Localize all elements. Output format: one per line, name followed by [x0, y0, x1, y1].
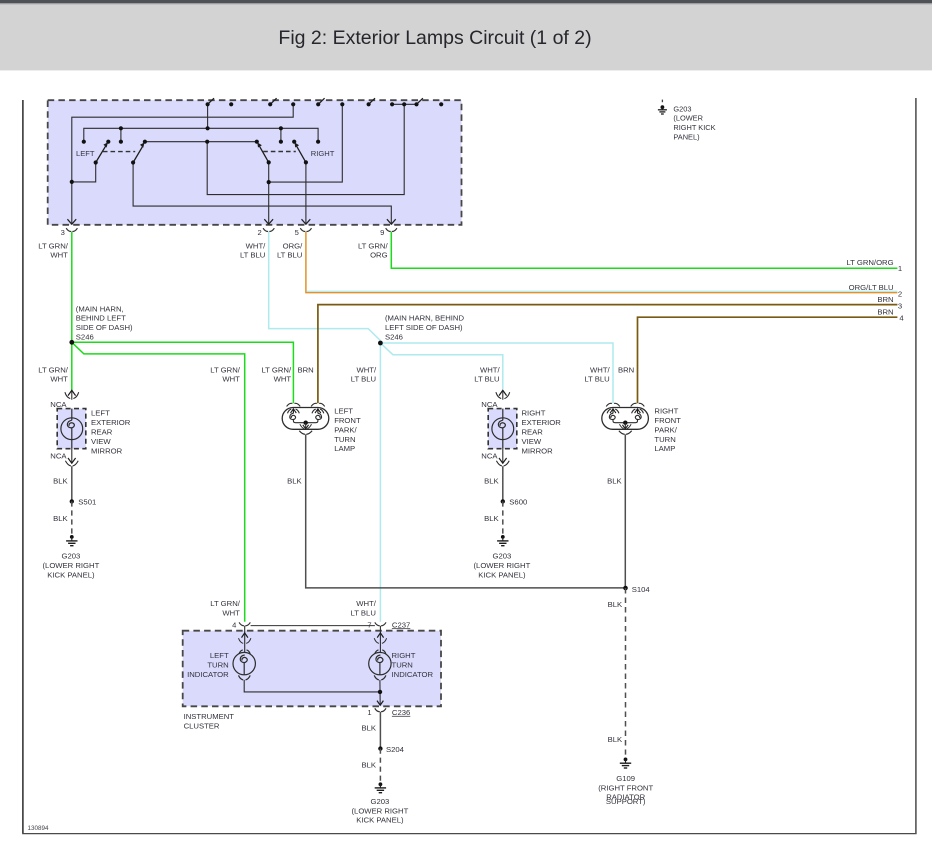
- svg-text:WHT/: WHT/: [356, 365, 377, 374]
- svg-text:WHT/: WHT/: [246, 241, 267, 250]
- svg-text:WHT: WHT: [222, 375, 240, 384]
- svg-text:S246: S246: [385, 333, 403, 342]
- label G203 (LOWER RIGHT KICK PANEL): [351, 797, 408, 825]
- wire BLK right mirror to S600: [502, 466, 504, 501]
- svg-text:BLK: BLK: [361, 760, 376, 769]
- svg-text:BLK: BLK: [287, 477, 302, 486]
- svg-text:FRONT: FRONT: [334, 416, 361, 425]
- wire BLK dashed S104 to G109: [625, 588, 627, 755]
- svg-text:LT GRN/: LT GRN/: [210, 365, 240, 374]
- label G203 (LOWER RIGHT KICK PANEL): [42, 552, 99, 580]
- svg-text:KICK PANEL): KICK PANEL): [47, 570, 95, 579]
- wire BLK left lamp to S104: [306, 434, 626, 588]
- svg-text:SUPPORT): SUPPORT): [606, 797, 646, 806]
- svg-text:WHT/: WHT/: [590, 365, 611, 374]
- wire WHT/LT BLU S246 branch to right mirror: [380, 343, 502, 389]
- svg-text:BLK: BLK: [53, 477, 68, 486]
- label RIGHT FRONT PARK/ TURN LAMP: [654, 407, 681, 454]
- svg-text:C236: C236: [392, 708, 410, 717]
- svg-text:KICK PANEL): KICK PANEL): [478, 570, 526, 579]
- svg-text:S104: S104: [632, 585, 651, 594]
- wire LT GRN/WHT S246 branch to left lamp: [72, 342, 294, 403]
- node: pin3 feed junction: [70, 180, 74, 184]
- switch blade top row 1: [208, 98, 214, 104]
- right mirror bottom connector arrow: [496, 449, 509, 466]
- wire right indicator to pin 1: [379, 680, 381, 705]
- header grey band: [0, 4, 932, 70]
- svg-text:WHT: WHT: [50, 251, 68, 260]
- switch blade top row 3: [318, 98, 324, 104]
- svg-text:PARK/: PARK/: [654, 425, 677, 434]
- blade arrowhead sw2: [140, 142, 145, 147]
- ground G203 (cluster): [375, 782, 386, 792]
- svg-text:9: 9: [380, 228, 384, 237]
- svg-text:(LOWER RIGHT: (LOWER RIGHT: [42, 561, 99, 570]
- left lamp turn bulb (BRN input): [312, 409, 324, 419]
- node: contact row dots y141.7: [82, 140, 86, 144]
- svg-text:NCA: NCA: [481, 400, 498, 409]
- right turn indicator bulb: [369, 650, 391, 680]
- svg-text:KICK PANEL): KICK PANEL): [356, 816, 404, 825]
- switch linkage dashes LEFT: [103, 151, 135, 153]
- svg-text:FRONT: FRONT: [654, 416, 681, 425]
- left mirror bottom connector arrow: [65, 449, 78, 466]
- right lamp output junction: [623, 421, 627, 425]
- node: top row contact dots: [229, 102, 233, 106]
- svg-text:LT GRN/: LT GRN/: [358, 241, 388, 250]
- instrument cluster box: [183, 631, 441, 707]
- left mirror bulb: [61, 409, 83, 449]
- wire LT GRN/WHT pin3 to S246: [71, 232, 73, 343]
- right lamp bottom connector arc: [619, 431, 632, 435]
- svg-text:INSTRUMENT: INSTRUMENT: [184, 712, 235, 721]
- svg-text:EXTERIOR: EXTERIOR: [91, 418, 131, 427]
- svg-text:BLK: BLK: [607, 477, 622, 486]
- svg-text:5: 5: [295, 228, 299, 237]
- label RIGHT EXTERIOR REAR VIEW MIRROR: [522, 409, 562, 456]
- splice S600: [501, 499, 505, 503]
- svg-text:4: 4: [899, 314, 904, 323]
- left lamp housing: [282, 408, 329, 430]
- wire: switch2 pivot leg to pin 9: [133, 163, 391, 224]
- svg-text:S600: S600: [509, 497, 527, 506]
- label LEFT FRONT PARK/ TURN LAMP: [334, 407, 361, 454]
- switch blade LEFT sw1: [96, 145, 107, 162]
- svg-text:EXTERIOR: EXTERIOR: [522, 418, 562, 427]
- wire: switch3 pivot leg to pin 2: [268, 162, 270, 223]
- wire BRN to right lamp from right edge: [638, 317, 898, 403]
- wire: contact2 drop and run to pin 3: [72, 104, 293, 223]
- pin 3 exit arrowhead: [67, 219, 76, 224]
- right lamp housing: [602, 408, 649, 430]
- right mirror component box: [488, 409, 517, 449]
- svg-text:WHT/: WHT/: [480, 365, 501, 374]
- ground G203 (left mirror): [66, 535, 77, 546]
- svg-text:LAMP: LAMP: [334, 444, 355, 453]
- svg-text:BEHIND LEFT: BEHIND LEFT: [76, 314, 126, 323]
- wire WHT/LT BLU pin2 to S246 second splice: [269, 232, 381, 343]
- svg-text:INDICATOR: INDICATOR: [392, 670, 434, 679]
- svg-text:BLK: BLK: [484, 477, 499, 486]
- svg-text:BLK: BLK: [608, 600, 623, 609]
- svg-text:ORG: ORG: [370, 251, 388, 260]
- svg-text:LT BLU: LT BLU: [351, 608, 376, 617]
- svg-text:MIRROR: MIRROR: [522, 446, 554, 455]
- pin 2 connector arc: [263, 228, 274, 231]
- switch blade RIGHT sw4: [296, 146, 306, 163]
- svg-text:TURN: TURN: [207, 661, 228, 670]
- splice S104: [623, 586, 628, 591]
- svg-text:BLK: BLK: [361, 723, 376, 732]
- ground G203 (right mirror): [497, 535, 508, 546]
- svg-text:2: 2: [898, 289, 902, 298]
- pin 5 connector arc: [300, 228, 311, 231]
- svg-text:BRN: BRN: [877, 295, 893, 304]
- svg-text:G109: G109: [616, 774, 635, 783]
- wire left indicator to common junction: [244, 680, 380, 692]
- svg-text:WHT/: WHT/: [356, 599, 377, 608]
- svg-text:VIEW: VIEW: [522, 437, 542, 446]
- node: switch pivots: [94, 160, 98, 164]
- switch blade top row 5: [417, 98, 423, 104]
- wire: switch4 pivot leg to pin 5: [305, 162, 307, 223]
- pin 3 connector arc: [66, 228, 77, 231]
- wire LT GRN/WHT S246 branch to instrument cluster pin4: [72, 342, 245, 622]
- wire: strap T drop to y194 run: [207, 104, 404, 194]
- right lamp turn bulb (BRN input): [632, 409, 644, 419]
- svg-text:WHT: WHT: [222, 608, 240, 617]
- svg-text:LEFT: LEFT: [210, 651, 229, 660]
- left turn indicator feed: [244, 626, 246, 653]
- svg-text:WHT: WHT: [50, 375, 68, 384]
- svg-text:LT BLU: LT BLU: [474, 375, 499, 384]
- wire: contact row y=141.7: [145, 141, 257, 143]
- node: pin2 feed junction: [267, 180, 271, 184]
- svg-text:3: 3: [898, 301, 902, 310]
- svg-text:LEFT: LEFT: [76, 149, 95, 158]
- blade arrowhead sw3: [257, 142, 262, 147]
- svg-text:Fig 2: Exterior Lamps Circuit: Fig 2: Exterior Lamps Circuit (1 of 2): [278, 27, 591, 49]
- svg-text:TURN: TURN: [334, 435, 355, 444]
- common junction dot: [378, 690, 382, 694]
- svg-text:G203: G203: [61, 552, 80, 561]
- svg-text:MIRROR: MIRROR: [91, 446, 123, 455]
- svg-text:LT GRN/: LT GRN/: [261, 365, 291, 374]
- svg-text:RIGHT KICK: RIGHT KICK: [673, 123, 715, 132]
- svg-text:G203: G203: [370, 797, 389, 806]
- switch blade sw2: [133, 145, 143, 162]
- pin 1 connector arc: [375, 708, 386, 711]
- left lamp output junction: [304, 421, 308, 425]
- svg-text:LT BLU: LT BLU: [277, 251, 302, 260]
- svg-text:PANEL): PANEL): [673, 133, 699, 142]
- svg-text:(MAIN HARN, BEHIND: (MAIN HARN, BEHIND: [385, 314, 464, 323]
- svg-text:NCA: NCA: [50, 451, 67, 460]
- wire LT GRN/ORG pin9 to right edge: [391, 232, 897, 269]
- wire BLK cluster pin1 to S204: [379, 712, 381, 749]
- blade arrowhead sw4: [295, 142, 300, 147]
- pin 4 connector arc: [239, 622, 250, 625]
- splice S204: [378, 746, 382, 750]
- wire BLK dashed S600 to ground: [502, 501, 504, 534]
- svg-text:BRN: BRN: [618, 365, 634, 374]
- svg-text:BRN: BRN: [297, 365, 313, 374]
- svg-text:BLK: BLK: [484, 514, 499, 523]
- svg-text:(LOWER RIGHT: (LOWER RIGHT: [473, 561, 530, 570]
- wire: stub 280.9: [280, 128, 282, 141]
- headlamp switch box: [48, 100, 462, 225]
- svg-text:REAR: REAR: [522, 428, 544, 437]
- ground G109: [620, 758, 631, 769]
- svg-text:RIGHT: RIGHT: [654, 407, 678, 416]
- label G109 (RIGHT FRONT RADIATOR SUPPORT): [598, 774, 653, 806]
- svg-text:S501: S501: [78, 497, 96, 506]
- wire BRN to left lamp from right edge: [318, 305, 898, 404]
- node: top row blade dots: [206, 102, 210, 106]
- label LEFT EXTERIOR REAR VIEW MIRROR: [91, 409, 131, 456]
- left lamp bottom connector arc: [299, 431, 312, 435]
- svg-text:LT BLU: LT BLU: [584, 375, 609, 384]
- wire: stub 120.9: [120, 128, 122, 141]
- svg-text:LEFT SIDE OF DASH): LEFT SIDE OF DASH): [385, 323, 463, 332]
- connector C237 line: [251, 625, 375, 627]
- svg-text:TURN: TURN: [392, 661, 413, 670]
- svg-text:LT BLU: LT BLU: [240, 251, 265, 260]
- svg-text:WHT: WHT: [274, 375, 292, 384]
- svg-text:1: 1: [898, 264, 902, 273]
- svg-text:(RIGHT FRONT: (RIGHT FRONT: [598, 783, 653, 792]
- svg-text:BRN: BRN: [877, 307, 893, 316]
- splice S246 (right): [378, 341, 383, 346]
- svg-text:RIGHT: RIGHT: [311, 149, 335, 158]
- svg-text:G203: G203: [673, 104, 691, 113]
- svg-text:RIGHT: RIGHT: [522, 409, 546, 418]
- svg-text:7: 7: [367, 620, 371, 629]
- svg-text:LT GRN/: LT GRN/: [38, 241, 68, 250]
- svg-text:LT GRN/: LT GRN/: [210, 599, 240, 608]
- wire: blade1 drop to bus y128: [207, 104, 209, 128]
- svg-text:2: 2: [257, 228, 261, 237]
- pin 2 exit arrowhead: [264, 219, 273, 224]
- splice S501: [70, 499, 74, 503]
- wire: contact3 drop to y182 run: [269, 104, 343, 182]
- svg-text:(LOWER: (LOWER: [673, 114, 703, 123]
- wire BLK dashed S204 to ground: [379, 749, 381, 782]
- wire stub dashed above G203: [661, 100, 663, 104]
- blade arrowhead sw1: [103, 142, 108, 147]
- svg-text:3: 3: [61, 228, 65, 237]
- frame left border: [22, 100, 24, 834]
- label LEFT TURN INDICATOR: [187, 651, 229, 679]
- splice S246 (left): [69, 340, 74, 345]
- svg-text:LEFT: LEFT: [91, 409, 110, 418]
- pin 7 connector arc: [375, 622, 386, 625]
- header top dark bar: [0, 0, 932, 3]
- ground G203 (top right): [658, 105, 667, 114]
- svg-text:LEFT: LEFT: [334, 407, 353, 416]
- label RIGHT TURN INDICATOR: [392, 651, 434, 679]
- wire: top strap contact4-blade5: [392, 103, 416, 105]
- left mirror top connector arrow (NCA): [65, 391, 79, 400]
- wire: bus y=128: [84, 128, 318, 141]
- svg-text:S246: S246: [76, 333, 94, 342]
- node: strap T junction: [402, 102, 406, 106]
- svg-text:S204: S204: [386, 745, 405, 754]
- svg-text:TURN: TURN: [654, 435, 675, 444]
- wire ORG/LT BLU light blue tracer: [307, 290, 898, 292]
- label G203 (LOWER RIGHT KICK PANEL) top right: [673, 104, 715, 141]
- label G203 (LOWER RIGHT KICK PANEL): [473, 552, 530, 580]
- wire ORG/LT BLU pin5 to right edge: [306, 232, 898, 293]
- svg-text:C237: C237: [392, 620, 410, 629]
- svg-text:LT GRN/: LT GRN/: [38, 365, 68, 374]
- svg-text:BLK: BLK: [53, 514, 68, 523]
- left mirror component box: [57, 409, 86, 449]
- switch blade top row 4: [369, 98, 375, 104]
- svg-text:SIDE OF DASH): SIDE OF DASH): [76, 323, 133, 332]
- pin 9 connector arc: [386, 228, 397, 231]
- wire WHT/LT BLU S246 down to cluster pin7: [379, 343, 381, 622]
- switch blade sw3: [259, 146, 269, 163]
- pin 9 exit arrowhead: [387, 219, 396, 224]
- svg-text:ORG/: ORG/: [283, 241, 304, 250]
- svg-text:BLK: BLK: [608, 735, 623, 744]
- svg-text:RIGHT: RIGHT: [392, 651, 416, 660]
- svg-text:LAMP: LAMP: [654, 444, 675, 453]
- wire BLK left mirror to S501: [71, 466, 73, 501]
- svg-text:NCA: NCA: [50, 400, 67, 409]
- wire LT GRN/WHT S246 down to left mirror: [71, 342, 73, 391]
- svg-text:NCA: NCA: [481, 451, 498, 460]
- svg-text:1: 1: [367, 708, 371, 717]
- svg-text:PARK/: PARK/: [334, 425, 357, 434]
- pin 5 exit arrowhead: [302, 219, 311, 224]
- svg-text:(MAIN HARN,: (MAIN HARN,: [76, 304, 124, 313]
- switch blade top row 2: [270, 98, 276, 104]
- left lamp park bulb (LT GRN/WHT input): [288, 409, 318, 423]
- right mirror top connector arrow (NCA): [496, 391, 510, 400]
- svg-text:LT BLU: LT BLU: [351, 375, 376, 384]
- svg-text:CLUSTER: CLUSTER: [184, 722, 220, 731]
- pin1 exit arrowhead: [377, 701, 383, 706]
- wire WHT/LT BLU S246 branch to right lamp: [380, 343, 613, 403]
- svg-text:4: 4: [232, 620, 236, 629]
- svg-text:130894: 130894: [28, 825, 50, 832]
- wire BLK right lamp to S104: [624, 434, 626, 588]
- svg-text:(LOWER RIGHT: (LOWER RIGHT: [351, 806, 408, 815]
- node: bus junctions y128: [119, 126, 123, 130]
- switch linkage dashes RIGHT: [263, 151, 296, 153]
- svg-text:REAR: REAR: [91, 428, 113, 437]
- left lamp input connector arcs: [287, 403, 325, 406]
- right lamp input connector arcs: [606, 403, 644, 406]
- frame bottom border: [22, 833, 916, 835]
- right mirror bulb: [492, 409, 514, 449]
- frame right border: [915, 98, 917, 834]
- svg-text:ORG/LT BLU: ORG/LT BLU: [849, 283, 894, 292]
- wire BLK dashed S501 to ground: [71, 501, 73, 534]
- svg-text:INDICATOR: INDICATOR: [187, 670, 229, 679]
- svg-text:LT GRN/ORG: LT GRN/ORG: [846, 258, 893, 267]
- right turn indicator feed: [379, 626, 381, 653]
- wire: LEFT switch pivot leg: [72, 163, 96, 182]
- right lamp park bulb (WHT/LT BLU input): [607, 409, 637, 423]
- svg-text:VIEW: VIEW: [91, 437, 111, 446]
- svg-text:G203: G203: [492, 552, 511, 561]
- left turn indicator bulb: [233, 650, 255, 680]
